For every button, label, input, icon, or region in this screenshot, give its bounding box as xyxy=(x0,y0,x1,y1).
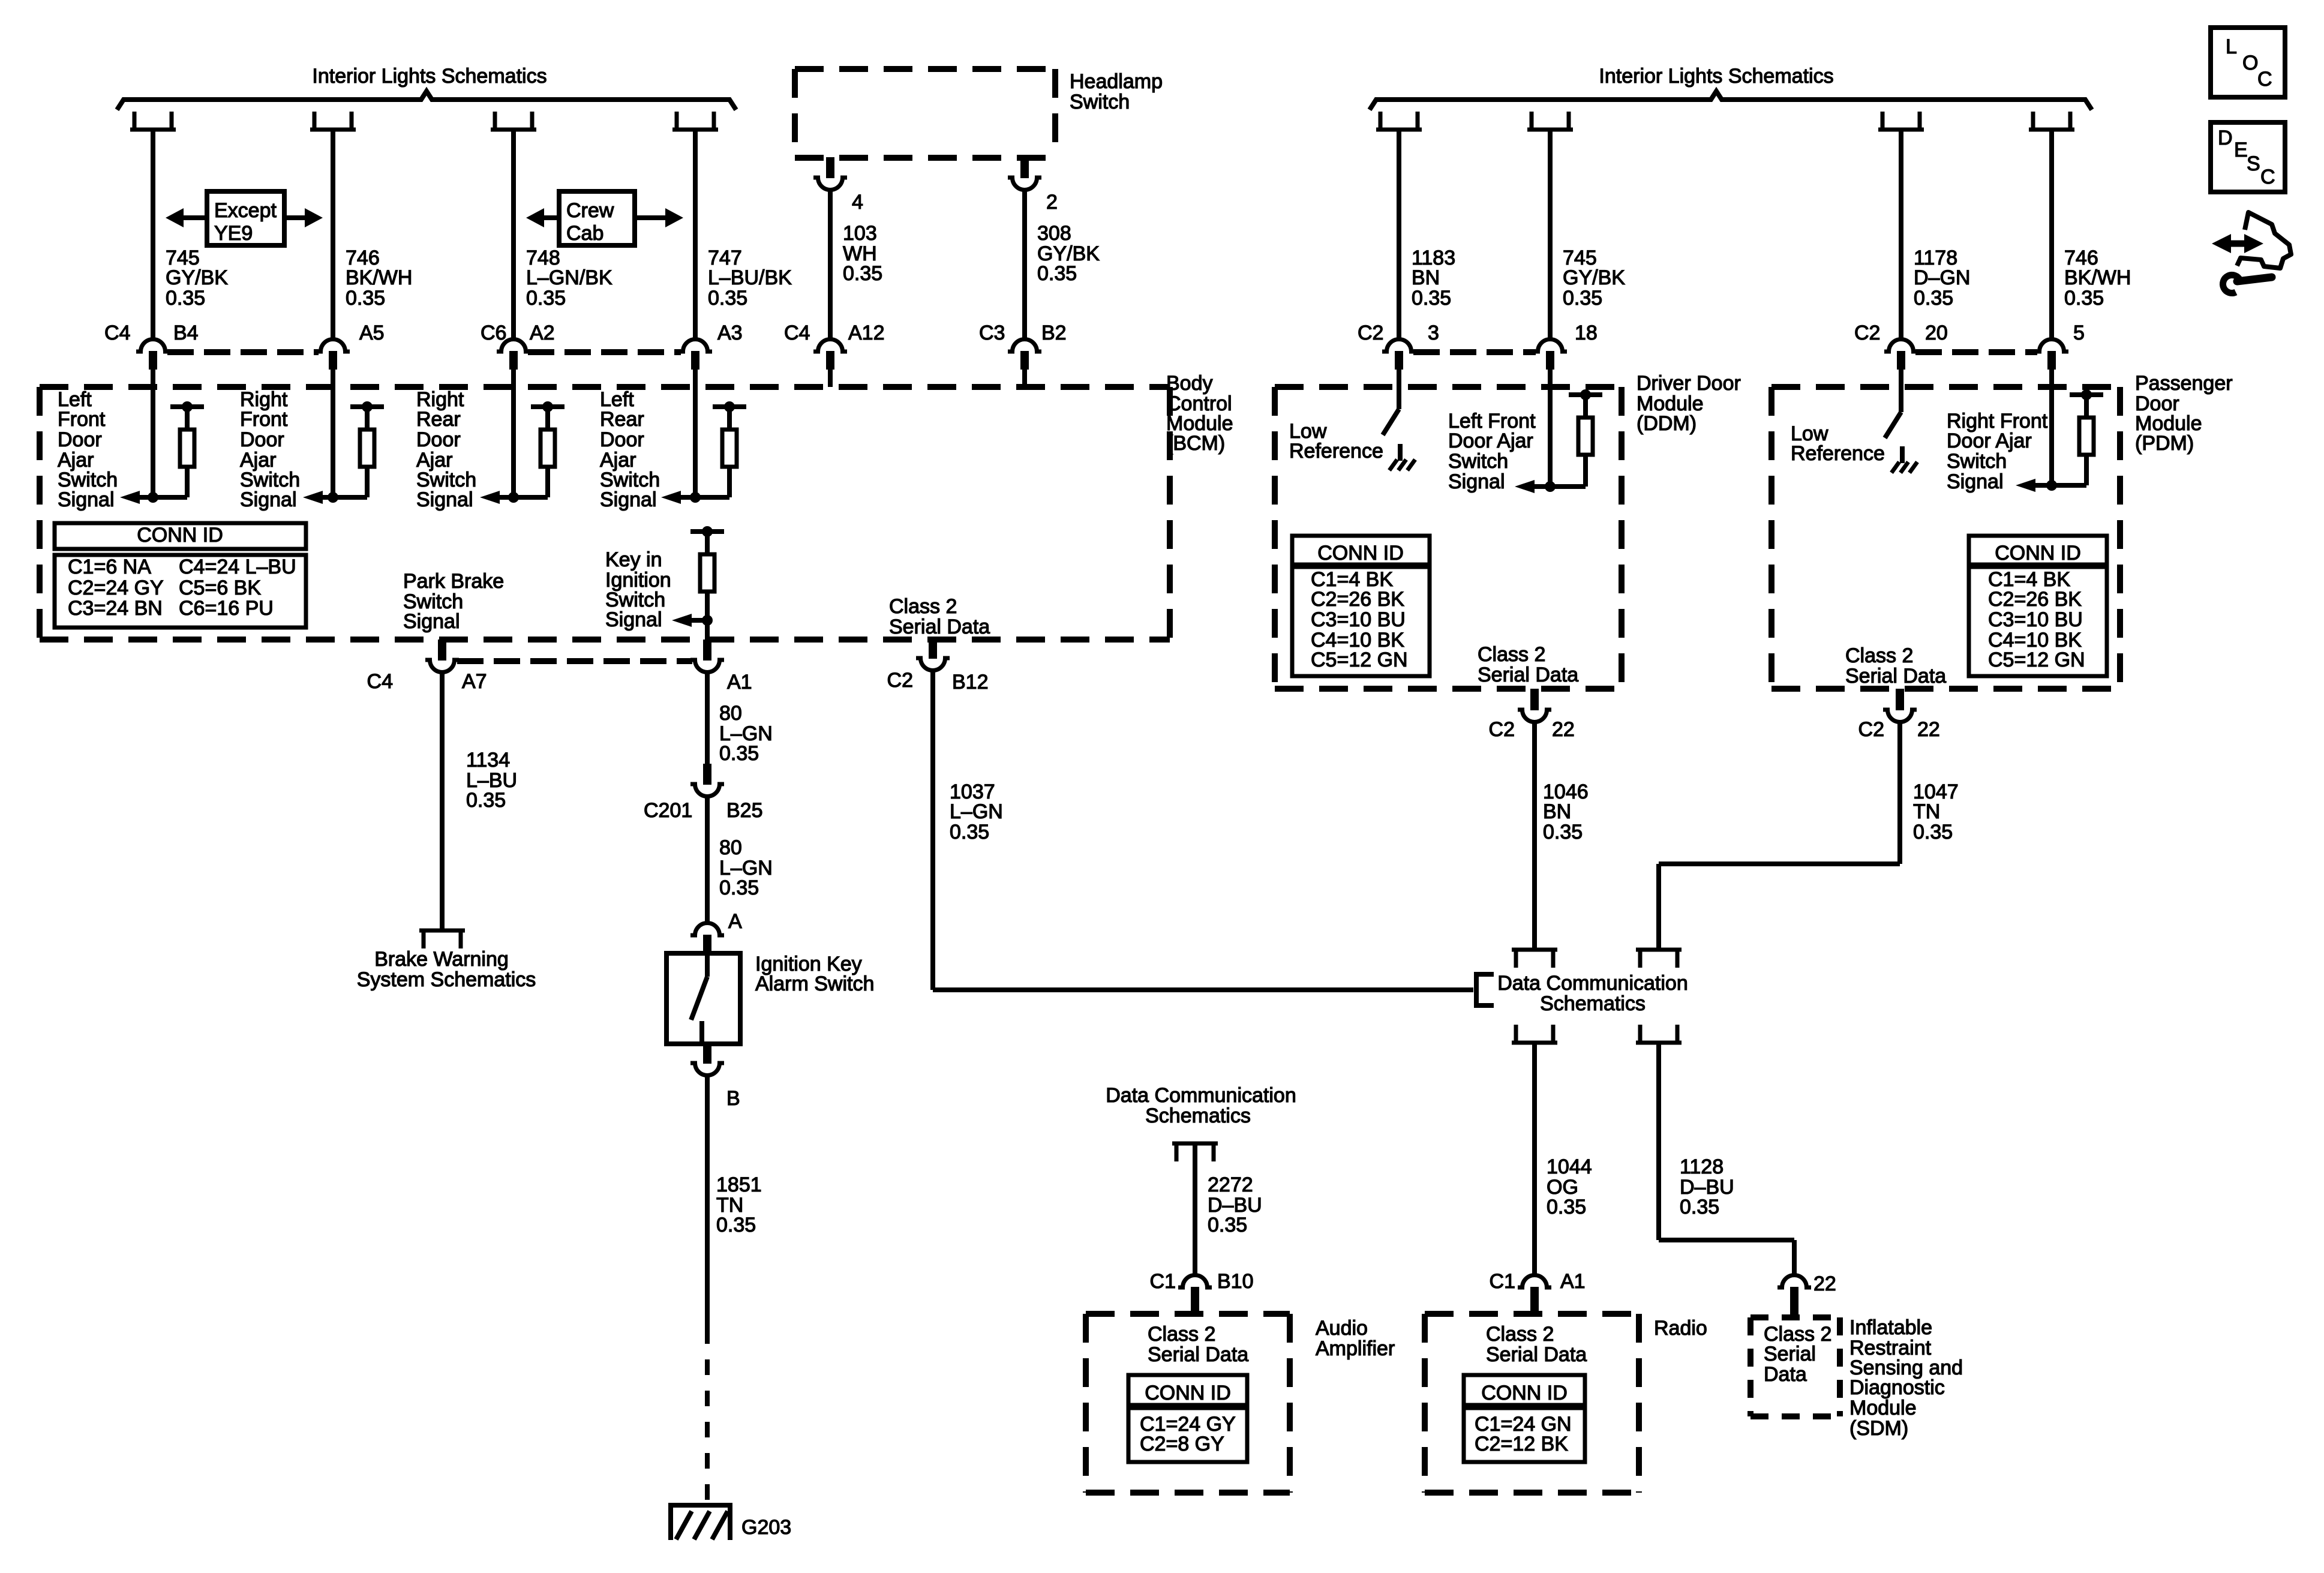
svg-text:L–BU/BK: L–BU/BK xyxy=(708,266,792,289)
svg-text:Rear: Rear xyxy=(600,408,644,431)
svg-text:B4: B4 xyxy=(173,322,199,344)
svg-text:C2: C2 xyxy=(887,669,913,692)
svg-text:Crew: Crew xyxy=(566,199,614,222)
svg-text:C5=6 BK: C5=6 BK xyxy=(179,577,261,599)
svg-text:G203: G203 xyxy=(741,1516,791,1539)
svg-text:C2: C2 xyxy=(1858,718,1884,741)
svg-text:C2=12 BK: C2=12 BK xyxy=(1475,1433,1568,1455)
svg-text:B: B xyxy=(726,1087,740,1110)
svg-text:Driver Door: Driver Door xyxy=(1637,372,1741,395)
svg-text:Class 2: Class 2 xyxy=(1845,644,1913,667)
svg-text:Serial Data: Serial Data xyxy=(1845,665,1946,688)
svg-text:Brake Warning: Brake Warning xyxy=(374,948,509,971)
svg-text:C6: C6 xyxy=(481,322,506,344)
svg-text:Signal: Signal xyxy=(240,488,297,511)
svg-text:Door: Door xyxy=(58,428,102,451)
svg-text:Amplifier: Amplifier xyxy=(1316,1337,1395,1360)
svg-text:Serial: Serial xyxy=(1764,1343,1816,1365)
svg-text:C4: C4 xyxy=(784,322,810,344)
svg-text:0.35: 0.35 xyxy=(1412,287,1451,310)
svg-text:Signal: Signal xyxy=(1448,470,1505,493)
svg-text:2272: 2272 xyxy=(1208,1173,1253,1196)
svg-text:E: E xyxy=(2234,139,2248,161)
svg-text:1134: 1134 xyxy=(466,749,510,772)
svg-text:Park Brake: Park Brake xyxy=(403,570,504,593)
svg-text:Radio: Radio xyxy=(1654,1317,1707,1340)
svg-text:A3: A3 xyxy=(717,322,743,344)
svg-text:3: 3 xyxy=(1428,322,1439,344)
svg-text:Serial Data: Serial Data xyxy=(1478,664,1578,686)
svg-text:0.35: 0.35 xyxy=(466,789,506,812)
svg-text:0.35: 0.35 xyxy=(719,876,759,899)
svg-text:Class 2: Class 2 xyxy=(1478,643,1545,666)
svg-text:0.35: 0.35 xyxy=(1037,262,1077,285)
svg-text:Door: Door xyxy=(600,428,644,451)
svg-text:C201: C201 xyxy=(644,799,692,822)
svg-text:Headlamp: Headlamp xyxy=(1070,70,1163,93)
svg-text:C2=24 GY: C2=24 GY xyxy=(68,577,164,599)
svg-text:Switch: Switch xyxy=(1070,91,1130,113)
svg-text:System Schematics: System Schematics xyxy=(357,968,536,991)
svg-text:Class 2: Class 2 xyxy=(1148,1323,1215,1346)
svg-text:Door: Door xyxy=(240,428,284,451)
svg-text:CONN ID: CONN ID xyxy=(137,524,223,547)
svg-text:C1: C1 xyxy=(1490,1270,1515,1293)
svg-text:0.35: 0.35 xyxy=(1914,287,1953,310)
svg-text:TN: TN xyxy=(1913,800,1940,823)
svg-text:1851: 1851 xyxy=(716,1173,762,1196)
svg-text:Schematics: Schematics xyxy=(1540,992,1646,1015)
svg-text:Schematics: Schematics xyxy=(1145,1104,1251,1127)
svg-text:0.35: 0.35 xyxy=(950,821,989,843)
svg-text:Signal: Signal xyxy=(58,488,115,511)
svg-text:CONN ID: CONN ID xyxy=(1481,1382,1568,1404)
svg-text:L: L xyxy=(2226,35,2237,58)
svg-text:A7: A7 xyxy=(462,670,487,693)
svg-text:L–GN/BK: L–GN/BK xyxy=(526,266,612,289)
svg-text:Body: Body xyxy=(1166,372,1213,395)
svg-text:Interior Lights Schematics: Interior Lights Schematics xyxy=(312,65,547,88)
svg-text:D–GN: D–GN xyxy=(1914,266,1970,289)
svg-text:80: 80 xyxy=(719,702,742,725)
svg-text:Signal: Signal xyxy=(605,608,662,631)
svg-text:(PDM): (PDM) xyxy=(2135,432,2194,455)
svg-text:Alarm Switch: Alarm Switch xyxy=(755,972,874,995)
svg-text:CONN ID: CONN ID xyxy=(1317,542,1404,565)
svg-text:1044: 1044 xyxy=(1547,1155,1592,1178)
svg-text:0.35: 0.35 xyxy=(526,287,566,310)
svg-text:C2=8 GY: C2=8 GY xyxy=(1140,1433,1224,1455)
svg-text:C5=12 GN: C5=12 GN xyxy=(1311,649,1408,671)
svg-text:0.35: 0.35 xyxy=(1563,287,1602,310)
svg-text:BN: BN xyxy=(1543,800,1571,823)
svg-text:C3=10 BU: C3=10 BU xyxy=(1311,608,1406,631)
svg-text:4: 4 xyxy=(852,191,863,214)
svg-text:Except: Except xyxy=(214,199,277,222)
svg-text:Serial Data: Serial Data xyxy=(889,616,990,638)
svg-text:A12: A12 xyxy=(848,322,885,344)
svg-text:BK/WH: BK/WH xyxy=(346,266,412,289)
svg-text:0.35: 0.35 xyxy=(716,1214,756,1236)
svg-text:CONN ID: CONN ID xyxy=(1995,542,2081,565)
svg-text:CONN ID: CONN ID xyxy=(1145,1382,1231,1404)
svg-text:Reference: Reference xyxy=(1289,440,1383,463)
svg-text:BK/WH: BK/WH xyxy=(2064,266,2131,289)
svg-text:S: S xyxy=(2247,152,2260,175)
svg-text:Signal: Signal xyxy=(416,488,473,511)
svg-text:Data: Data xyxy=(1764,1363,1807,1386)
svg-text:Module: Module xyxy=(1849,1397,1917,1419)
svg-text:Door: Door xyxy=(416,428,461,451)
svg-text:0.35: 0.35 xyxy=(1208,1214,1247,1236)
svg-text:C3: C3 xyxy=(979,322,1005,344)
svg-text:Inflatable: Inflatable xyxy=(1849,1316,1932,1339)
svg-text:C: C xyxy=(2260,166,2275,188)
svg-text:0.35: 0.35 xyxy=(1543,821,1583,843)
svg-text:Rear: Rear xyxy=(416,408,461,431)
svg-text:Interior Lights Schematics: Interior Lights Schematics xyxy=(1599,65,1833,88)
svg-text:B10: B10 xyxy=(1217,1270,1254,1293)
svg-text:0.35: 0.35 xyxy=(166,287,205,310)
svg-text:(DDM): (DDM) xyxy=(1637,412,1697,435)
svg-text:Serial Data: Serial Data xyxy=(1486,1343,1587,1366)
svg-text:Front: Front xyxy=(58,408,106,431)
svg-text:Class 2: Class 2 xyxy=(1486,1323,1554,1346)
svg-text:Audio: Audio xyxy=(1316,1317,1368,1340)
svg-text:C1: C1 xyxy=(1150,1270,1176,1293)
svg-text:C4=24 L–BU: C4=24 L–BU xyxy=(179,556,296,578)
svg-text:Key in: Key in xyxy=(605,548,662,571)
svg-text:0.35: 0.35 xyxy=(708,287,747,310)
svg-text:2: 2 xyxy=(1046,191,1058,214)
svg-text:0.35: 0.35 xyxy=(2064,287,2104,310)
svg-text:A1: A1 xyxy=(1560,1270,1586,1293)
svg-text:C2: C2 xyxy=(1358,322,1383,344)
svg-text:0.35: 0.35 xyxy=(1913,821,1953,843)
svg-text:B2: B2 xyxy=(1041,322,1067,344)
svg-text:5: 5 xyxy=(2073,322,2085,344)
svg-text:GY/BK: GY/BK xyxy=(166,266,228,289)
svg-text:C6=16 PU: C6=16 PU xyxy=(179,597,274,620)
svg-text:C4: C4 xyxy=(104,322,130,344)
svg-text:Signal: Signal xyxy=(403,610,460,633)
svg-text:308: 308 xyxy=(1037,222,1071,245)
svg-text:B25: B25 xyxy=(726,799,763,822)
svg-text:80: 80 xyxy=(719,836,742,859)
svg-text:YE9: YE9 xyxy=(214,222,253,245)
svg-text:C: C xyxy=(2257,68,2272,91)
svg-text:Passenger: Passenger xyxy=(2135,372,2233,395)
svg-text:0.35: 0.35 xyxy=(719,742,759,765)
svg-text:Signal: Signal xyxy=(600,488,657,511)
svg-text:22: 22 xyxy=(1917,718,1940,741)
svg-text:GY/BK: GY/BK xyxy=(1563,266,1625,289)
svg-text:Serial Data: Serial Data xyxy=(1148,1343,1248,1366)
svg-text:22: 22 xyxy=(1552,718,1575,741)
svg-text:C2=26 BK: C2=26 BK xyxy=(1988,588,2082,611)
svg-text:22: 22 xyxy=(1813,1272,1836,1295)
svg-text:Signal: Signal xyxy=(1947,470,2004,493)
svg-text:0.35: 0.35 xyxy=(1680,1196,1719,1218)
svg-text:Reference: Reference xyxy=(1791,442,1885,465)
svg-text:0.35: 0.35 xyxy=(346,287,385,310)
svg-text:0.35: 0.35 xyxy=(1547,1196,1586,1218)
svg-text:A2: A2 xyxy=(530,322,555,344)
svg-text:Diagnostic: Diagnostic xyxy=(1849,1376,1945,1399)
svg-text:O: O xyxy=(2242,52,2258,74)
svg-text:20: 20 xyxy=(1925,322,1948,344)
svg-text:Door Ajar: Door Ajar xyxy=(1947,430,2032,452)
svg-text:(BCM): (BCM) xyxy=(1166,432,1225,455)
svg-text:A: A xyxy=(728,910,742,933)
svg-text:C4: C4 xyxy=(367,670,393,693)
svg-text:(SDM): (SDM) xyxy=(1849,1417,1908,1440)
svg-text:1128: 1128 xyxy=(1680,1155,1724,1178)
svg-text:A5: A5 xyxy=(359,322,385,344)
svg-text:Front: Front xyxy=(240,408,288,431)
svg-text:C3=10 BU: C3=10 BU xyxy=(1988,608,2083,631)
svg-text:BN: BN xyxy=(1412,266,1440,289)
svg-text:D: D xyxy=(2218,127,2233,149)
svg-text:C2: C2 xyxy=(1489,718,1515,741)
svg-text:Data Communication: Data Communication xyxy=(1497,972,1688,995)
svg-text:18: 18 xyxy=(1575,322,1598,344)
svg-text:C2=26 BK: C2=26 BK xyxy=(1311,588,1404,611)
svg-text:Door Ajar: Door Ajar xyxy=(1448,430,1533,452)
svg-text:B12: B12 xyxy=(952,671,989,694)
svg-text:L–GN: L–GN xyxy=(950,800,1003,823)
svg-text:C1=6 NA: C1=6 NA xyxy=(68,556,151,578)
svg-text:103: 103 xyxy=(843,222,877,245)
svg-text:Class 2: Class 2 xyxy=(889,595,957,618)
svg-text:0.35: 0.35 xyxy=(843,262,882,285)
svg-text:Cab: Cab xyxy=(566,222,603,245)
svg-text:C2: C2 xyxy=(1854,322,1880,344)
svg-text:A1: A1 xyxy=(727,671,752,694)
svg-text:Switch: Switch xyxy=(1448,450,1508,473)
svg-text:Data Communication: Data Communication xyxy=(1106,1084,1296,1107)
svg-text:C5=12 GN: C5=12 GN xyxy=(1988,649,2085,671)
svg-text:Switch: Switch xyxy=(1947,450,2007,473)
svg-text:C3=24 BN: C3=24 BN xyxy=(68,597,163,620)
